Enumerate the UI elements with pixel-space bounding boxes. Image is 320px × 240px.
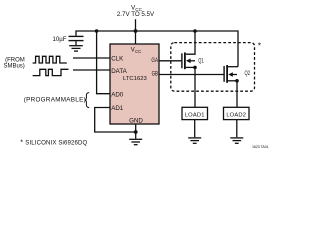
svg-text:GA: GA xyxy=(151,57,158,64)
svg-text:SMBus): SMBus) xyxy=(3,64,24,70)
svg-text:LTC1623: LTC1623 xyxy=(123,76,148,82)
svg-text:2.7V TO 5.5V: 2.7V TO 5.5V xyxy=(117,11,155,18)
node junction dot GND/AD1 xyxy=(134,130,138,134)
op-amp U1 LTC1623 chip body xyxy=(110,44,159,124)
node VCC supply label xyxy=(117,5,155,19)
node junction dot Q1 drain xyxy=(193,29,197,33)
load LOAD1 box xyxy=(182,107,208,119)
wire GA xyxy=(159,60,181,62)
svg-text:GND: GND xyxy=(129,117,143,124)
svg-text:CC: CC xyxy=(135,49,141,54)
wire AD1 to GND xyxy=(95,108,136,133)
svg-text:AD0: AD0 xyxy=(111,92,124,99)
data waveform xyxy=(33,69,69,75)
node junction dot cap tie xyxy=(95,29,99,33)
wire GND pin xyxy=(135,124,137,139)
wire CLK xyxy=(73,57,110,59)
svg-text:CLK: CLK xyxy=(111,56,124,63)
brace for AD0/AD1 xyxy=(85,93,90,108)
svg-text:Q1: Q1 xyxy=(198,58,204,65)
ground below chip xyxy=(129,139,142,144)
label FROM SMBus xyxy=(3,57,24,69)
wire GB xyxy=(159,74,224,76)
dashed box dual MOSFET package xyxy=(171,43,255,92)
wire VCC rail xyxy=(76,31,238,67)
svg-text:Q2: Q2 xyxy=(245,70,251,77)
svg-text:SILICONIX Si6926DQ: SILICONIX Si6926DQ xyxy=(25,139,87,146)
wire AD0 tie to VCC xyxy=(97,31,110,94)
wire LOAD1 to ground xyxy=(194,120,196,138)
ground below LOAD2 xyxy=(230,138,243,143)
wire DATA xyxy=(73,69,110,71)
svg-text:10µF: 10µF xyxy=(53,36,67,43)
ground below capacitor xyxy=(69,46,83,51)
svg-text:DATA: DATA xyxy=(111,68,127,75)
load LOAD2 box xyxy=(224,107,250,119)
svg-text:GB: GB xyxy=(152,71,158,78)
capacitor C1 10uF xyxy=(69,36,84,40)
svg-text:LOAD1: LOAD1 xyxy=(185,112,205,118)
svg-text:(PROGRAMMABLE): (PROGRAMMABLE) xyxy=(24,96,86,103)
wire LOAD2 to ground xyxy=(236,120,238,138)
ground below LOAD1 xyxy=(188,138,201,143)
clk waveform xyxy=(33,56,67,63)
svg-text:AD1: AD1 xyxy=(111,105,124,112)
transistor Q2 xyxy=(224,65,250,107)
svg-text:(FROM: (FROM xyxy=(5,57,25,63)
svg-text:*: * xyxy=(20,137,23,146)
svg-text:LOAD2: LOAD2 xyxy=(226,112,246,118)
svg-text:1623 TA01: 1623 TA01 xyxy=(252,145,269,149)
wire VCC supply drop to rail xyxy=(135,19,137,44)
transistor Q1 xyxy=(182,31,204,107)
node junction dot chip VCC xyxy=(134,29,138,33)
